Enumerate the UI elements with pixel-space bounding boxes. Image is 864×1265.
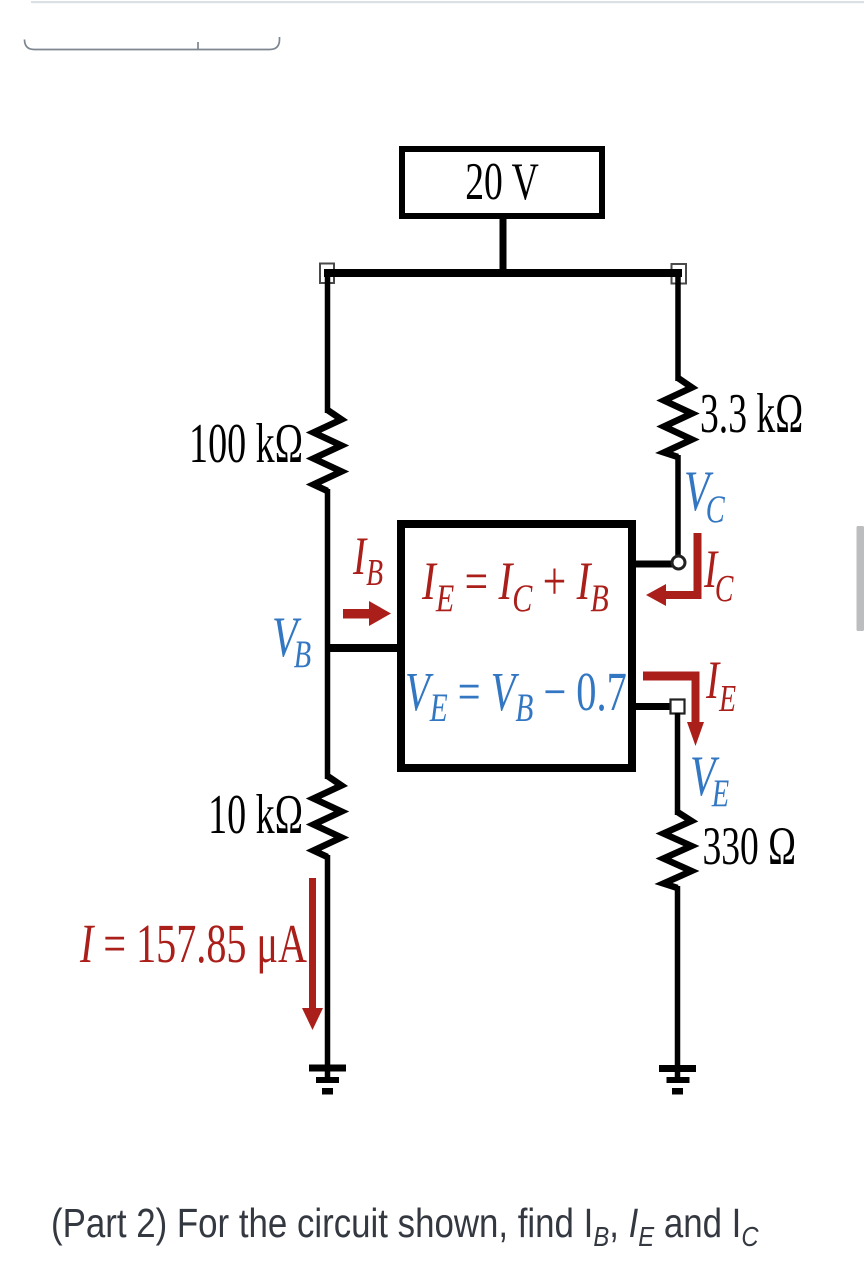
resistor R2 10k zigzag [314, 776, 342, 857]
node handle left (square) [320, 264, 334, 284]
toolbar button group (bottom edge visible) [25, 37, 280, 50]
bus wire (top horizontal) [324, 269, 682, 277]
svg-text:20 V: 20 V [465, 152, 539, 211]
battery 20V box [402, 149, 602, 216]
wire R1 to base node [325, 489, 331, 779]
svg-text:IB: IB [352, 527, 383, 594]
wire right branch top [675, 273, 681, 381]
ground left [309, 1065, 346, 1095]
wire R3 to collector pin [675, 455, 681, 557]
resistor R3 3.3k zigzag [664, 378, 692, 457]
caption text [51, 1200, 759, 1247]
svg-text:I = 157.85 μA: I = 157.85 μA [79, 914, 307, 975]
svg-text:330 Ω: 330 Ω [703, 818, 797, 877]
collector wire from box [632, 561, 673, 568]
wire emitter down [675, 713, 681, 815]
scrollbar thumb [857, 526, 864, 631]
arrow IE out of box [643, 672, 704, 747]
svg-text:100 kΩ: 100 kΩ [189, 413, 303, 475]
wire from 20V box to bus [500, 216, 507, 273]
transistor box U1 [401, 524, 632, 768]
current arrow I down [302, 878, 323, 1030]
wire R2 to ground [325, 855, 331, 1079]
emitter wire from box [632, 703, 671, 710]
wire R4 to ground [675, 886, 681, 1079]
arrow IC into box [646, 533, 702, 606]
svg-text:3.3 kΩ: 3.3 kΩ [700, 383, 803, 445]
node handle right (square) [672, 264, 687, 284]
wire left branch top [325, 273, 331, 413]
svg-text:10 kΩ: 10 kΩ [208, 784, 303, 846]
resistor R4 330 zigzag [664, 812, 692, 888]
ground right [659, 1065, 696, 1095]
svg-text:IE: IE [705, 651, 736, 720]
emitter pin square [671, 700, 685, 714]
svg-text:VC: VC [684, 460, 726, 531]
svg-text:VE: VE [690, 745, 729, 815]
arrow IB into base [343, 601, 391, 626]
resistor R1 100k zigzag [314, 410, 342, 491]
collector pin circle [672, 556, 685, 569]
base wire [328, 644, 402, 652]
svg-text:IC: IC [703, 540, 734, 610]
svg-text:VB: VB [272, 606, 311, 676]
top hairline [31, 1, 864, 3]
